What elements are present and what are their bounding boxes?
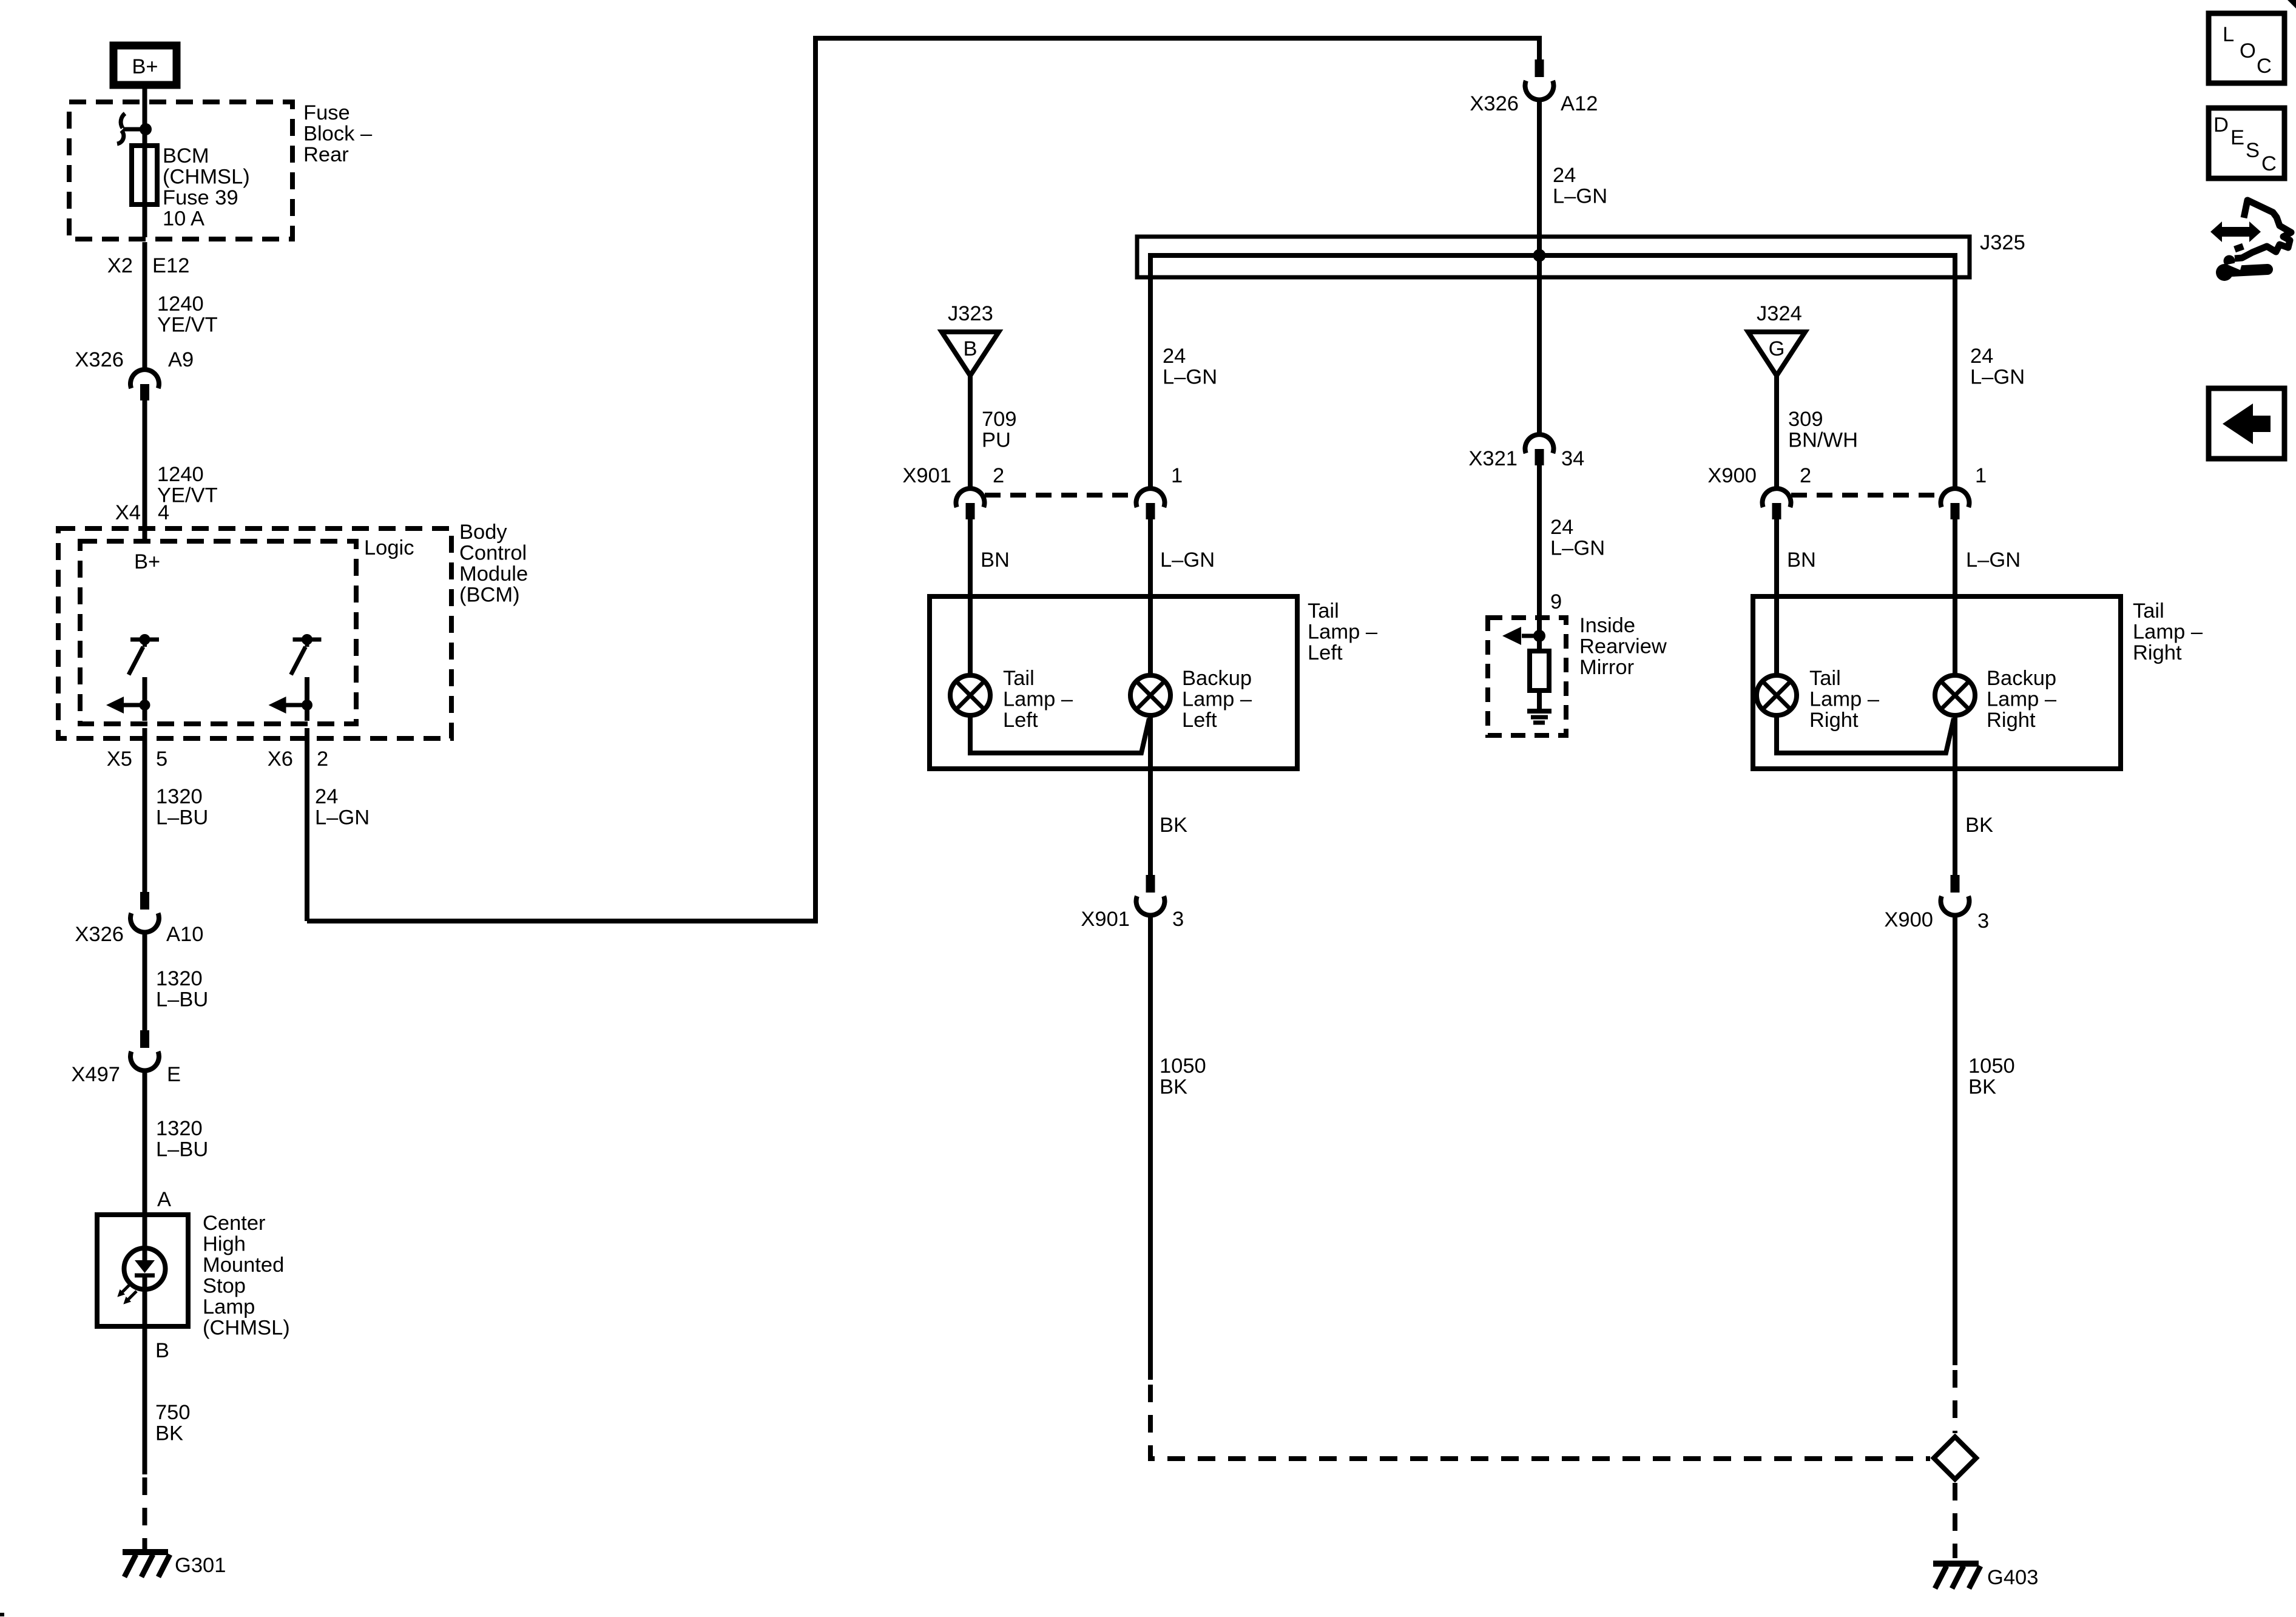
- wire X901-2 to tail lamp, BN: [968, 519, 973, 675]
- svg-text:X326: X326: [75, 923, 124, 946]
- label 709 PU: [982, 408, 1017, 452]
- svg-text:Left: Left: [1003, 709, 1038, 732]
- svg-text:Mounted: Mounted: [203, 1254, 284, 1277]
- wire A12 to bus, circuit 24 L-GN: [1537, 98, 1542, 255]
- svg-text:1240: 1240: [157, 463, 204, 486]
- stray mark bottom left: [0, 1613, 4, 1616]
- connector X326 terminal A10: [130, 892, 159, 932]
- labels X326 A9: [75, 348, 194, 371]
- svg-text:Right: Right: [2133, 641, 2182, 664]
- svg-text:Lamp –: Lamp –: [2133, 621, 2203, 644]
- output arrow 2: [269, 697, 313, 714]
- svg-text:Left: Left: [1182, 709, 1217, 732]
- svg-text:Inside: Inside: [1579, 614, 1635, 637]
- lamp Tail Lamp - Left: [950, 675, 990, 715]
- label 24 L-GN: [1163, 345, 1217, 389]
- svg-text:X900: X900: [1707, 464, 1757, 487]
- svg-text:Tail: Tail: [1809, 667, 1841, 690]
- splice symbol J324 triangle G: [1748, 332, 1805, 376]
- label 1240 YE/VT: [157, 463, 218, 507]
- svg-text:A9: A9: [168, 348, 194, 371]
- svg-text:Tail: Tail: [1308, 599, 1339, 623]
- svg-text:BK: BK: [1968, 1076, 1996, 1099]
- inside rearview mirror dashed box: [1488, 618, 1566, 735]
- tail lamp left housing box: [930, 596, 1297, 769]
- svg-text:1050: 1050: [1160, 1055, 1206, 1078]
- svg-text:1: 1: [1975, 464, 1987, 487]
- svg-text:L–GN: L–GN: [1550, 537, 1605, 560]
- svg-text:L–GN: L–GN: [315, 806, 370, 829]
- svg-text:BN: BN: [1787, 549, 1816, 572]
- wire X901-1 to backup lamp, L-GN: [1148, 519, 1153, 675]
- icon box LOC: [2209, 13, 2284, 83]
- dashed connector line X900: [1791, 493, 1940, 498]
- label 750 BK: [155, 1401, 191, 1445]
- svg-text:(BCM): (BCM): [459, 584, 520, 607]
- svg-text:24: 24: [1550, 516, 1573, 539]
- svg-text:Center: Center: [203, 1212, 266, 1235]
- svg-text:BCM: BCM: [163, 144, 209, 167]
- svg-text:G403: G403: [1987, 1566, 2038, 1589]
- wire CHMSL to ground, circuit 750 BK: [143, 1289, 147, 1474]
- svg-text:2: 2: [1800, 464, 1811, 487]
- wire X901-3 down, circuit 1050 BK: [1148, 913, 1153, 1380]
- pin labels X5 5: [107, 748, 167, 771]
- svg-text:L–GN: L–GN: [1553, 185, 1607, 208]
- svg-text:J323: J323: [948, 302, 993, 325]
- power symbol B+: [113, 46, 177, 85]
- svg-text:Backup: Backup: [1987, 667, 2056, 690]
- svg-text:Fuse: Fuse: [303, 101, 350, 124]
- wire X6 out of BCM: [305, 705, 309, 921]
- svg-text:B: B: [155, 1339, 169, 1362]
- svg-text:YE/VT: YE/VT: [157, 314, 218, 337]
- connector X326 terminal A9: [130, 370, 159, 400]
- wire through fuse: [143, 129, 147, 237]
- svg-text:Rear: Rear: [303, 143, 349, 166]
- svg-text:3: 3: [1977, 910, 1989, 933]
- svg-text:Left: Left: [1308, 641, 1343, 664]
- svg-text:Stop: Stop: [203, 1275, 246, 1298]
- labels X497 E: [71, 1063, 181, 1086]
- label Tail Lamp - Left (housing): [1308, 599, 1378, 664]
- svg-text:C: C: [2257, 55, 2272, 78]
- dashed wire diamond to G403: [1953, 1483, 1957, 1558]
- label 24 L-GN: [1553, 164, 1607, 208]
- wire B+ to fuse: [143, 89, 147, 127]
- labels X326 A10: [75, 923, 203, 946]
- labels X900 3: [1884, 908, 1989, 933]
- label Backup Lamp - Right (bulb): [1987, 667, 2057, 732]
- svg-text:X321: X321: [1468, 447, 1518, 470]
- connector X900 terminal 3: [1941, 875, 1970, 915]
- svg-text:24: 24: [1163, 345, 1186, 368]
- svg-text:A: A: [157, 1188, 171, 1211]
- switch 1 (CHMSL driver): [129, 634, 159, 705]
- label 1320 L-BU: [156, 785, 208, 829]
- label 1320 L-BU: [156, 967, 208, 1011]
- svg-text:PU: PU: [982, 429, 1011, 452]
- wire A10 to X497, circuit 1320 L-BU: [143, 930, 147, 1030]
- fuse element F39 curl: [117, 113, 146, 144]
- svg-text:B: B: [963, 337, 977, 360]
- svg-text:Logic: Logic: [364, 536, 414, 559]
- label Tail Lamp - Right (housing): [2133, 599, 2203, 664]
- mirror internal resistor: [1530, 636, 1549, 709]
- wire backup lamp right to X900-3, BK: [1953, 715, 1957, 875]
- wire tail lamp right jog: [1777, 715, 1954, 753]
- svg-text:L–BU: L–BU: [156, 1138, 208, 1161]
- svg-text:Backup: Backup: [1182, 667, 1252, 690]
- svg-text:Block –: Block –: [303, 123, 373, 146]
- fuse block dashed box: [69, 102, 292, 239]
- svg-text:24: 24: [315, 785, 338, 808]
- connector X497 terminal E: [130, 1030, 159, 1070]
- svg-text:(CHMSL): (CHMSL): [163, 166, 250, 189]
- svg-text:A10: A10: [166, 923, 203, 946]
- svg-text:L–GN: L–GN: [1163, 366, 1217, 389]
- label 1240 YE/VT: [157, 292, 218, 337]
- icon box back arrow: [2209, 388, 2284, 459]
- svg-text:L: L: [2223, 23, 2234, 46]
- label 309 BN/WH: [1788, 408, 1858, 452]
- svg-text:X4: X4: [115, 501, 141, 524]
- svg-text:Right: Right: [1809, 709, 1859, 732]
- svg-text:BN/WH: BN/WH: [1788, 429, 1858, 452]
- label Body Control Module (BCM): [459, 521, 528, 607]
- mirror internal arrow: [1502, 627, 1545, 645]
- wire X900-2 to tail lamp, BN: [1774, 519, 1779, 675]
- svg-text:24: 24: [1553, 164, 1576, 187]
- label 24 L-GN (X6 wire): [315, 785, 370, 829]
- svg-text:X6: X6: [268, 748, 293, 771]
- svg-text:C: C: [2261, 152, 2277, 175]
- label 1320 L-BU: [156, 1117, 208, 1161]
- svg-text:1: 1: [1171, 464, 1183, 487]
- splice pack J325 outer box: [1137, 237, 1970, 277]
- wire bus to X901-1, 24 L-GN: [1148, 255, 1153, 488]
- label Backup Lamp - Left (bulb): [1182, 667, 1252, 732]
- svg-text:Mirror: Mirror: [1579, 656, 1634, 679]
- svg-text:Lamp: Lamp: [203, 1295, 255, 1318]
- wire tail lamp left jog: [970, 715, 1149, 753]
- lamp Backup Lamp - Right: [1935, 675, 1975, 715]
- svg-text:1050: 1050: [1968, 1055, 2015, 1078]
- wire bus to X900-1, 24 L-GN: [1953, 255, 1957, 488]
- label Fuse Block - Rear: [303, 101, 373, 166]
- svg-text:Body: Body: [459, 521, 507, 544]
- junction node at fuse: [140, 123, 152, 135]
- dashed wire to diamond: [1953, 1370, 1957, 1433]
- svg-text:309: 309: [1788, 408, 1823, 431]
- svg-text:Lamp –: Lamp –: [1809, 688, 1880, 711]
- svg-text:750: 750: [155, 1401, 191, 1424]
- svg-text:2: 2: [993, 464, 1004, 487]
- svg-text:S: S: [2246, 139, 2260, 162]
- lamp Tail Lamp - Right: [1757, 675, 1797, 715]
- svg-text:3: 3: [1172, 908, 1184, 931]
- dashed connector line X901: [985, 493, 1136, 498]
- svg-text:O: O: [2240, 39, 2256, 62]
- label 1050 BK: [1160, 1055, 1206, 1099]
- output arrow 1: [106, 697, 150, 714]
- connector X901 terminal 3: [1136, 875, 1165, 915]
- svg-text:Module: Module: [459, 562, 528, 586]
- svg-text:4: 4: [158, 501, 169, 524]
- wire X497 to CHMSL, circuit 1320 L-BU: [143, 1068, 147, 1248]
- wire backup lamp left to X901-3, BK: [1148, 715, 1153, 875]
- labels X901 2: [902, 464, 1004, 487]
- pin labels X2 E12: [107, 254, 190, 277]
- label Inside Rearview Mirror: [1579, 614, 1667, 679]
- svg-text:B+: B+: [132, 55, 158, 78]
- wire X900-3 down, circuit 1050 BK: [1953, 913, 1957, 1365]
- icon box DESC: [2209, 108, 2284, 178]
- ground G301: [123, 1552, 226, 1577]
- svg-text:A12: A12: [1561, 92, 1598, 115]
- svg-text:9: 9: [1550, 590, 1562, 613]
- svg-text:BK: BK: [1160, 1076, 1187, 1099]
- svg-text:X900: X900: [1884, 908, 1933, 931]
- ground G403: [1933, 1564, 2038, 1589]
- svg-text:10 A: 10 A: [163, 208, 204, 231]
- svg-text:Lamp –: Lamp –: [1182, 688, 1252, 711]
- svg-text:24: 24: [1970, 345, 1993, 368]
- svg-text:Rearview: Rearview: [1579, 635, 1667, 658]
- svg-text:L–GN: L–GN: [1160, 549, 1215, 572]
- svg-text:Tail: Tail: [1003, 667, 1035, 690]
- labels X321 34: [1468, 447, 1584, 470]
- svg-text:L–GN: L–GN: [1966, 549, 2021, 572]
- labels X900 2: [1707, 464, 1811, 487]
- svg-text:BK: BK: [1965, 814, 1993, 837]
- svg-text:5: 5: [156, 748, 167, 771]
- CHMSL lamp box: [97, 1215, 188, 1326]
- junction node on bus: [1533, 249, 1546, 262]
- svg-text:(CHMSL): (CHMSL): [203, 1317, 290, 1340]
- svg-text:BK: BK: [1160, 814, 1187, 837]
- labels X326 A12: [1470, 92, 1598, 115]
- svg-text:Control: Control: [459, 542, 527, 565]
- svg-text:X2: X2: [107, 254, 133, 277]
- splice symbol J323 triangle B: [942, 332, 999, 376]
- connector X901 terminal 2: [956, 488, 985, 519]
- stray mark top right: [2288, 0, 2296, 8]
- svg-text:Right: Right: [1987, 709, 2036, 732]
- svg-text:G301: G301: [175, 1554, 226, 1577]
- svg-text:X326: X326: [75, 348, 124, 371]
- svg-text:Lamp –: Lamp –: [1003, 688, 1073, 711]
- label 1050 BK: [1968, 1055, 2015, 1099]
- svg-text:1320: 1320: [156, 967, 203, 990]
- svg-text:E: E: [2230, 126, 2244, 149]
- svg-text:1320: 1320: [156, 1117, 203, 1140]
- svg-text:B+: B+: [134, 550, 160, 573]
- svg-text:E: E: [167, 1063, 181, 1086]
- svg-text:Tail: Tail: [2133, 599, 2164, 623]
- icon service wrench hand: [2210, 200, 2291, 281]
- svg-text:X901: X901: [1081, 908, 1130, 931]
- tail lamp right housing box: [1753, 596, 2121, 769]
- wire bus to X321: [1537, 255, 1542, 434]
- labels X901 3: [1081, 908, 1184, 931]
- svg-text:J324: J324: [1757, 302, 1802, 325]
- LED CHMSL symbol: [115, 1248, 165, 1307]
- svg-text:X326: X326: [1470, 92, 1519, 115]
- label 24 L-GN: [1970, 345, 2025, 389]
- BCM logic inner dashed box: [80, 541, 356, 724]
- svg-text:34: 34: [1561, 447, 1584, 470]
- wire J324 to X900-2, circuit 309 BN/WH: [1774, 376, 1779, 488]
- fuse F39 body: [132, 146, 157, 204]
- svg-text:1240: 1240: [157, 292, 204, 316]
- connector X321 terminal 34: [1525, 434, 1554, 465]
- label Center High Mounted Stop Lamp (CHMSL): [203, 1212, 290, 1340]
- svg-text:X497: X497: [71, 1063, 120, 1086]
- wire fuse to X326 A9, circuit 1240 YE/VT: [143, 242, 147, 370]
- mirror internal ground: [1527, 711, 1551, 723]
- pin labels X6 2: [268, 748, 328, 771]
- svg-text:X901: X901: [902, 464, 951, 487]
- svg-text:1320: 1320: [156, 785, 203, 808]
- connector X900 terminal 2: [1763, 488, 1791, 519]
- svg-text:Lamp –: Lamp –: [1987, 688, 2057, 711]
- svg-text:L–BU: L–BU: [156, 988, 208, 1011]
- wire X900-1 to backup lamp, L-GN: [1953, 519, 1957, 675]
- wire X6 to top run: [307, 38, 1539, 921]
- svg-text:D: D: [2213, 113, 2229, 137]
- connector X900 terminal 1: [1941, 488, 1970, 519]
- svg-text:Lamp –: Lamp –: [1308, 621, 1378, 644]
- splice diamond: [1934, 1437, 1976, 1479]
- svg-text:BN: BN: [981, 549, 1010, 572]
- svg-text:E12: E12: [152, 254, 189, 277]
- label Tail Lamp - Left (bulb): [1003, 667, 1073, 732]
- svg-text:X5: X5: [107, 748, 132, 771]
- label 24 L-GN: [1550, 516, 1605, 560]
- BCM outer dashed box: [58, 528, 451, 738]
- svg-text:L–GN: L–GN: [1970, 366, 2025, 389]
- wire X321 to mirror, circuit 24 L-GN: [1537, 465, 1542, 636]
- svg-text:Fuse 39: Fuse 39: [163, 186, 238, 209]
- wire X326 A9 to BCM, circuit 1240 YE/VT: [143, 400, 147, 541]
- wire X5 out of BCM: [143, 705, 147, 892]
- svg-text:J325: J325: [1980, 231, 2025, 254]
- svg-text:L–BU: L–BU: [156, 806, 208, 829]
- label BCM (CHMSL) Fuse 39 10 A: [163, 144, 250, 231]
- dashed wire to splice: [1150, 1385, 1930, 1459]
- wire J323 to X901-2, circuit 709 PU: [968, 376, 973, 488]
- splice pack internal bus wire: [1150, 255, 1955, 258]
- label Tail Lamp - Right (bulb): [1809, 667, 1880, 732]
- pin labels X4 4: [115, 501, 169, 524]
- connector X326 terminal A12: [1525, 59, 1554, 100]
- svg-text:709: 709: [982, 408, 1017, 431]
- dashed wire to G301: [143, 1477, 147, 1550]
- svg-text:BK: BK: [155, 1422, 183, 1445]
- lamp Backup Lamp - Left: [1130, 675, 1170, 715]
- svg-text:High: High: [203, 1233, 246, 1256]
- svg-text:G: G: [1769, 337, 1785, 360]
- svg-text:2: 2: [317, 748, 328, 771]
- connector X901 terminal 1: [1136, 488, 1165, 519]
- switch 2 (backup driver): [291, 634, 322, 705]
